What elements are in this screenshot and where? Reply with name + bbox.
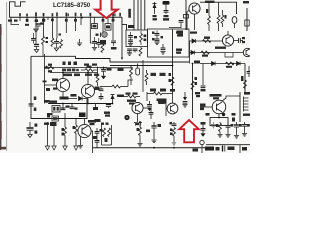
vertical x172.5 upper xyxy=(172,29,174,94)
resistor R17 on it xyxy=(171,77,174,86)
resistor R3 xyxy=(101,44,104,53)
labels left of row2 xyxy=(176,49,182,51)
transistor T8 xyxy=(78,119,91,149)
wire T3 bottom to diode row xyxy=(63,92,77,99)
resistor R18 on it xyxy=(191,81,194,90)
wire T8 right xyxy=(91,131,92,153)
label KTC388 above T7 xyxy=(210,94,222,97)
bus B pins row y67.5 xyxy=(44,67,107,69)
capacitor C8 at 181 xyxy=(179,21,184,23)
bus A top horizontal xyxy=(10,16,123,18)
labels right x195-200 y92 xyxy=(195,92,200,94)
capacitor C5 pair at 94-99 xyxy=(92,34,104,53)
top-left connector outline xyxy=(10,2,26,18)
cap C21 at 228 xyxy=(225,122,233,137)
cap C17 at 149.5,106 xyxy=(147,101,152,111)
bottom left component group 101-112 xyxy=(101,123,112,146)
frame line grey vertical xyxy=(6,2,8,151)
diode D5 xyxy=(79,97,83,101)
IC box label 208 xyxy=(105,24,111,31)
resonator X1 at 166 xyxy=(163,1,170,21)
cap C12 in box1 left edge xyxy=(29,97,37,112)
left scan edge red segment 4 xyxy=(0,121,2,139)
wire T0 bottom xyxy=(194,14,196,30)
blob left of T7 xyxy=(200,104,206,107)
resistor R5 at 209 xyxy=(206,2,210,31)
long vertical from pin 122 xyxy=(121,18,123,60)
left scan edge red segment 2 xyxy=(0,64,2,72)
label KTC388-945 xyxy=(157,99,167,102)
cap+resistor at 174 xyxy=(170,122,177,147)
cluster caps under pin 36/43 area y33-52 xyxy=(31,33,48,56)
label above T8 xyxy=(88,120,96,123)
row3 wire y63.5 xyxy=(200,63,245,65)
top right rail xyxy=(200,2,237,14)
resistor R22 xyxy=(108,128,111,137)
box component at 186 xyxy=(184,15,189,19)
capacitor C32 xyxy=(127,49,132,51)
electrolytic C20 at 154,126 xyxy=(151,122,161,143)
electrolytic C24 on wire xyxy=(223,146,235,152)
label BC548B xyxy=(215,47,226,49)
label above rail xyxy=(205,1,215,3)
electrolytic C19 at 30,128 xyxy=(27,122,38,138)
transistor T4 xyxy=(81,73,94,98)
cap C25 inside B3 xyxy=(160,44,165,54)
cap C14 xyxy=(71,104,73,108)
nested border corner xyxy=(31,56,189,62)
left scan edge bottom corner xyxy=(0,147,7,150)
ground G3 under pin 79 xyxy=(79,39,81,43)
label DL box xyxy=(194,61,200,64)
resistor R2b xyxy=(60,40,63,49)
labels at 193-197 y148 xyxy=(193,149,199,152)
ground G1 xyxy=(34,50,38,53)
red up arrow xyxy=(179,120,199,142)
wire from T0 down-left xyxy=(187,10,189,30)
caps right of T8 xyxy=(93,128,103,148)
labels on bus B xyxy=(63,62,66,66)
terminal circle at 202,142 xyxy=(200,140,204,153)
wire with arrow at 47.5 xyxy=(44,122,50,150)
row1 wire y41 xyxy=(190,40,223,42)
small cap marks below T5 xyxy=(134,123,142,126)
resistor R2 xyxy=(51,38,54,47)
vertical label left of verticals xyxy=(128,9,131,18)
red down arrow xyxy=(95,0,117,18)
label C945 xyxy=(60,97,69,100)
resistor R15 horizontal at 128-136 y96 xyxy=(128,95,137,98)
resistor R9 xyxy=(201,51,210,54)
triple verticals top center xyxy=(134,0,145,30)
cap C26 at 103,70 with ground xyxy=(101,67,111,80)
vertical right x245 xyxy=(244,64,246,93)
box label top left bottom area xyxy=(50,122,57,126)
wire L-shape at 169-181 xyxy=(169,23,181,28)
cap C15 at 101 y96 xyxy=(99,93,104,100)
junction wire down at 233 xyxy=(225,53,233,58)
vertical 203 group xyxy=(201,122,206,137)
label at left of bus C xyxy=(49,101,57,103)
box label bottom left xyxy=(52,116,59,121)
electrolytic C3 xyxy=(34,45,39,47)
resistor R23 at 140 xyxy=(136,122,151,146)
ground G2 xyxy=(54,48,58,51)
resistor R8 xyxy=(203,40,212,43)
transistor T3 xyxy=(44,73,69,92)
cap X1 at 156,33 inside B3 xyxy=(152,31,163,45)
zener D6 at 112 xyxy=(111,95,125,104)
bottom resistor R27 at 117,86 xyxy=(100,80,133,88)
capacitor C2 xyxy=(31,39,36,41)
junction dot xyxy=(222,113,225,116)
pin labels above bus A xyxy=(19,12,121,16)
labels left of row1 xyxy=(176,32,183,34)
resistor R25 at 131,72 xyxy=(130,66,133,86)
right edge component at 247 xyxy=(243,1,249,31)
vertical wire x203 down from row3 xyxy=(202,64,204,86)
pin stubs below bus A xyxy=(20,17,113,44)
scattered tiny labels left margin xyxy=(8,20,50,118)
labels inside B3 right xyxy=(177,31,184,33)
resistor R16 horizontal 153-163 y93 xyxy=(154,92,163,95)
diode D7 xyxy=(237,62,241,66)
transistor T1 xyxy=(222,31,233,46)
cap C27 at 101,89 xyxy=(99,87,104,91)
cluster under pins 52-62 y38-53 xyxy=(51,27,62,51)
lamp/oval at 234.5 xyxy=(232,17,237,24)
vertical x95.5 below bus C xyxy=(93,104,101,123)
vertical x143 xyxy=(142,60,144,92)
bottom bus y147.5 xyxy=(93,147,208,149)
resistor R6 R7 pair at 218-222 xyxy=(217,2,226,31)
wire T5 right xyxy=(143,107,149,109)
crystal box at 137.5,71 xyxy=(136,64,140,76)
right vertical x240 xyxy=(239,92,241,122)
grey cap at 213.5 xyxy=(211,122,216,129)
cap C23 at 244.5 xyxy=(242,122,250,136)
resistor R14 xyxy=(96,74,99,83)
vertical x97.5 with resistor xyxy=(97,67,99,75)
left scan edge red segment 1 xyxy=(0,27,2,35)
resistor R4 xyxy=(140,34,143,43)
wire T7 bottom xyxy=(218,114,220,118)
resistor R19 at 65 xyxy=(62,113,68,150)
cap C18 at 151,113 xyxy=(149,108,154,119)
wire down to arrow xyxy=(52,126,56,150)
capacitor C7 at 113,42 xyxy=(111,41,117,50)
left scan edge bar xyxy=(0,24,1,150)
wire y72.5 xyxy=(50,72,98,74)
wire box corner at 90,43 xyxy=(90,42,98,44)
diode D2 xyxy=(192,39,196,43)
box B3 mid right xyxy=(148,29,190,57)
capacitor C31 xyxy=(128,40,133,42)
resistor R10 xyxy=(226,62,235,65)
resistor R28 xyxy=(139,48,142,57)
electrolytic blob at 126,117 xyxy=(124,115,129,120)
bus C y103.5 xyxy=(48,103,113,105)
label WIRE dark xyxy=(205,147,214,151)
box1 left edge xyxy=(31,56,87,118)
caps below box B2 xyxy=(127,48,142,57)
ground G4 xyxy=(128,44,133,47)
resistor R1 xyxy=(42,36,45,45)
capacitor C30 xyxy=(128,36,133,38)
vertical x240 bottom xyxy=(239,145,241,153)
vertical wire x44.4 xyxy=(43,54,45,104)
capacitor C9 right of T1 xyxy=(234,37,245,43)
cap C11 at 203,86 xyxy=(201,86,206,88)
dark component PB xyxy=(79,113,86,118)
vertical x192.5 xyxy=(192,64,194,119)
pin labels below bus A xyxy=(26,19,115,22)
label STA383 xyxy=(158,101,166,104)
wire y67.5 xyxy=(100,67,133,69)
vertical wire at 186 xyxy=(185,0,187,30)
capacitor C33 xyxy=(133,49,138,51)
transistor T0 top right xyxy=(189,3,200,14)
bus A staircase into box B2 xyxy=(122,17,127,30)
resistor R21 xyxy=(103,128,106,137)
diode D1 zener at 154 xyxy=(153,2,158,20)
left vertical of block xyxy=(189,41,191,64)
electrolytic cap C1 under pin 36 xyxy=(34,23,44,33)
resistor R12 on bus B xyxy=(46,66,55,69)
dense label row 2 xyxy=(63,74,72,77)
electrolytic C22 at 236.5 xyxy=(234,122,242,138)
component box at 52-60,105-112 xyxy=(52,106,60,113)
box B2 top middle xyxy=(126,30,148,47)
label E22 xyxy=(118,68,124,71)
box bottom right xyxy=(210,118,228,126)
wire into T7 base xyxy=(200,106,212,108)
label KTC388 xyxy=(127,100,136,102)
transistor T5 xyxy=(132,102,143,122)
resistor R20 at 76 xyxy=(73,119,79,151)
electrolytic C16 plus xyxy=(104,105,111,117)
transistor T6 xyxy=(166,94,178,117)
bottom right wire y144.5 xyxy=(206,144,250,146)
electrolytic C6 at 104,34 xyxy=(100,32,107,45)
dense label row AY3WB4Y xyxy=(62,69,66,72)
resistor R13 at 84-95 y70.5 xyxy=(85,69,94,72)
transistor T2 right edge xyxy=(243,48,251,56)
small box VOL below bus xyxy=(92,24,98,29)
cap C10 right edge xyxy=(247,66,252,77)
diode D4 xyxy=(212,62,216,66)
wire T7 top right xyxy=(222,96,240,101)
left scan edge red segment 3 xyxy=(0,103,2,112)
hanging components below bus C xyxy=(49,104,86,122)
label BA328 xyxy=(128,25,134,28)
vertical x147 right mid xyxy=(146,92,148,101)
diode D3 xyxy=(191,51,195,55)
caps inside box B2 xyxy=(128,31,146,46)
resistor R11 on x245 xyxy=(244,80,247,89)
capacitor C4 xyxy=(54,42,59,44)
dense labels bottom of mid row y88-92 xyxy=(150,89,156,92)
labels at 150-166 y73 xyxy=(151,73,157,76)
diode/cap cluster at 185,97-107 xyxy=(182,92,187,107)
capacitor C13 xyxy=(61,108,66,110)
connector ladder right edge xyxy=(244,97,249,112)
resistor R26 at 146.5,77 xyxy=(145,70,148,85)
resistor R24 at 220 xyxy=(216,122,223,137)
svg-text:LC7185–8750: LC7185–8750 xyxy=(53,3,91,9)
wire L below bus left end xyxy=(11,17,19,24)
row2 wire y52.5 xyxy=(190,52,244,54)
